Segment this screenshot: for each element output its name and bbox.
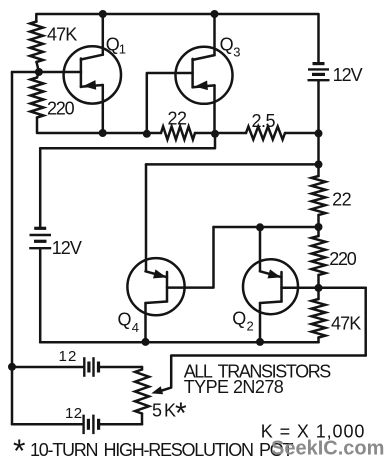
svg-text:*: * [175,397,187,430]
svg-text:TYPE 2N278: TYPE 2N278 [184,377,284,397]
svg-text:Q: Q [232,309,246,329]
svg-text:22: 22 [332,189,352,209]
svg-text:12: 12 [65,405,83,422]
svg-text:2.5: 2.5 [252,111,276,131]
svg-text:SeekIC.com: SeekIC.com [271,438,384,460]
svg-text:22: 22 [168,109,188,129]
svg-text:1: 1 [119,42,126,57]
svg-text:*: * [13,433,25,466]
svg-text:3: 3 [233,45,240,60]
svg-text:Q: Q [220,35,234,55]
svg-text:12: 12 [59,348,78,365]
svg-text:Q: Q [106,35,120,55]
svg-text:47K: 47K [47,25,77,45]
svg-text:10-TURN HIGH-RESOLUTION POT: 10-TURN HIGH-RESOLUTION POT [30,440,294,460]
svg-text:2: 2 [247,319,254,334]
svg-text:220: 220 [47,99,75,119]
svg-text:4: 4 [132,320,139,335]
svg-text:47K: 47K [331,313,361,333]
svg-text:12V: 12V [52,238,82,258]
svg-text:12V: 12V [333,65,363,85]
svg-text:220: 220 [329,249,357,269]
svg-text:Q: Q [118,310,132,330]
